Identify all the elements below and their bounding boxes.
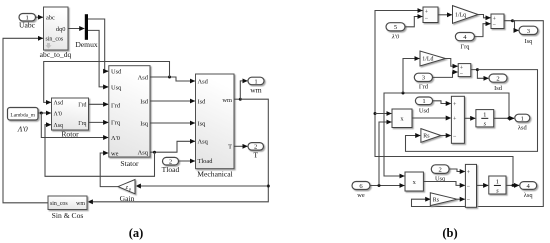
svg-text:Rs: Rs [423, 134, 430, 140]
wire demux out1 to Stator Usd [88, 19, 108, 71]
wire sum5 to integrator4 [477, 184, 489, 186]
junction Isq [511, 19, 514, 22]
wire sum4 to integrator3 [464, 117, 475, 119]
wire 1/Ld to sum3 plus [445, 59, 457, 67]
output port 1 wm [248, 77, 264, 94]
sum block S1 [423, 7, 438, 23]
wire integrator4 to lambda_sq port [506, 184, 519, 186]
block abc_to_dq [40, 7, 72, 59]
svg-text:Λ'0: Λ'0 [111, 135, 120, 142]
svg-text:Demux: Demux [75, 40, 98, 49]
gain Rs3 [421, 129, 441, 143]
svg-text:sin_cos: sin_cos [46, 37, 64, 43]
svg-text:wm: wm [222, 97, 232, 104]
svg-text:Gain: Gain [120, 194, 135, 203]
block Stator [109, 66, 150, 168]
wire lambda_sd to 1/Ld [403, 59, 419, 94]
svg-text:abc: abc [46, 15, 55, 22]
junction lambda'0 [40, 112, 43, 115]
junction wm feedback to gain [267, 185, 270, 188]
svg-text:sin_cos: sin_cos [50, 201, 68, 207]
input port 2 Usq [431, 165, 449, 183]
junction lambda_sq to x1 [374, 112, 377, 115]
input port 2 Tload [162, 157, 180, 174]
svg-text:Uabc: Uabc [19, 21, 36, 30]
wire Stator lambda_sq to Mechanical [150, 141, 195, 152]
svg-text:Isq: Isq [524, 38, 533, 45]
svg-text:1/Lq: 1/Lq [455, 13, 466, 19]
wire lambda_sq to x1 [375, 113, 391, 115]
gain 1/Lq [453, 6, 479, 24]
wire Isd feedback loop to Rs3 [406, 70, 538, 152]
block Rotor [52, 98, 89, 138]
constant Lambda_m [8, 108, 39, 134]
junction Isd [476, 68, 479, 71]
svg-text:1: 1 [483, 112, 486, 119]
svg-text:1: 1 [496, 179, 499, 186]
wire Rotor Grd to Stator [89, 103, 109, 105]
svg-text:1: 1 [521, 115, 524, 122]
svg-text:Isd: Isd [494, 85, 503, 92]
svg-text:+: + [425, 9, 429, 15]
sum block S4 [451, 96, 464, 143]
input port 1 Uabc [19, 14, 36, 30]
svg-text:Isq: Isq [140, 120, 149, 127]
wire Grd to sum3 minus [433, 72, 458, 77]
product block x2 [405, 172, 423, 191]
wire Rs4 to sum5 [457, 198, 465, 200]
block Sin & Cos [48, 196, 87, 220]
input port 1 Usd [415, 97, 432, 114]
wire we to x2 [370, 185, 404, 187]
output port 2 Isd [489, 74, 507, 92]
wire Isq feedback loop to Rs4 [412, 21, 544, 207]
junction we [378, 184, 381, 187]
wire lambda_sd feedback to Rotor [44, 62, 170, 103]
svg-text:Λsd: Λsd [198, 78, 209, 85]
input port 5 lambda'0 [386, 23, 405, 41]
gain 1/Ld [420, 51, 445, 66]
svg-text:Isq: Isq [198, 120, 207, 127]
wire lambda_sd feedback [384, 93, 509, 176]
svg-text:Λ'0: Λ'0 [17, 125, 28, 134]
output port 2 T [248, 143, 264, 160]
integrator 1/s row3 [476, 110, 494, 128]
svg-text:T: T [253, 151, 258, 160]
output port 3 Isq [519, 26, 538, 45]
sum block S5 [465, 164, 476, 207]
svg-text:we: we [111, 150, 119, 157]
wire integrator3 to lambda_sd port [494, 117, 514, 119]
svg-text:−: − [467, 184, 471, 190]
gain zp Gain [118, 180, 135, 204]
svg-text:Usd: Usd [419, 107, 430, 114]
svg-text:1/Ld: 1/Ld [422, 57, 433, 63]
wire Gain out to Stator we [100, 153, 118, 187]
input port 6 we [352, 182, 370, 200]
svg-text:wm: wm [76, 201, 85, 207]
wire sum3 out to Isd port [471, 70, 489, 79]
wire Grq to sum2 minus [474, 24, 490, 37]
svg-text:Λ'0: Λ'0 [54, 112, 62, 118]
wire dq0 to Demux [68, 28, 84, 30]
sum block S3 [458, 64, 471, 78]
svg-text:Λsq: Λsq [198, 139, 209, 146]
svg-text:(b): (b) [442, 226, 457, 240]
block Mechanical [196, 74, 235, 178]
wire lambda'0 to sum1 minus [405, 17, 422, 27]
svg-text:Λsd: Λsd [138, 74, 149, 81]
svg-text:wm: wm [250, 86, 261, 95]
svg-text:Isd: Isd [198, 99, 207, 106]
svg-text:2: 2 [496, 76, 499, 83]
demux Demux [75, 14, 98, 49]
svg-text:abc_to_dq: abc_to_dq [40, 50, 72, 59]
svg-text:λ'0: λ'0 [391, 34, 400, 41]
input port 3 Grd [414, 73, 432, 90]
output port 4 lambda_sq [520, 182, 537, 200]
wire lambda_sq feedback to Rotor [45, 125, 155, 177]
svg-text:dq0: dq0 [56, 26, 66, 33]
wire lambda'0 branch to Stator [41, 113, 108, 138]
svg-text:+: + [467, 170, 471, 176]
wire Tload to Mechanical [179, 160, 195, 162]
svg-text:Γrd: Γrd [419, 84, 429, 91]
sum block S2 [491, 14, 504, 29]
svg-text:−: − [460, 71, 464, 77]
svg-text:Γrd: Γrd [78, 103, 86, 109]
svg-text:Isd: Isd [140, 98, 149, 105]
svg-text:Γrq: Γrq [460, 43, 470, 50]
svg-text:−: − [425, 16, 429, 22]
svg-text:Λsq: Λsq [138, 150, 149, 157]
junction lambda_sq [153, 151, 156, 154]
svg-text:Γrq: Γrq [111, 120, 121, 127]
svg-text:Tload: Tload [162, 165, 180, 174]
svg-text:Usd: Usd [111, 69, 122, 76]
svg-text:Tload: Tload [198, 158, 214, 165]
wire wm to Gain [136, 185, 268, 187]
wire Stator lambda_sd to Mechanical [150, 77, 195, 81]
svg-text:Usq: Usq [111, 84, 122, 91]
wire T to port [234, 145, 247, 147]
wire Uabc to abc input [36, 16, 43, 18]
svg-text:Lambda_m: Lambda_m [10, 112, 35, 118]
wire Lambda_m to Rotor lambda'0 [38, 112, 51, 114]
svg-text:2: 2 [438, 166, 441, 173]
wire x1 to sum4 [412, 117, 451, 119]
wire sum2 out to Isq port [504, 21, 518, 31]
svg-text:1: 1 [254, 78, 257, 85]
wire demux out2 to Stator Usq [88, 30, 108, 87]
output port 1 lambda_sd [515, 114, 530, 131]
wire Usq to sum5 [449, 169, 465, 172]
wire Rotor Grq to Stator [89, 121, 109, 123]
junction wm [239, 98, 242, 101]
svg-text:λsd: λsd [518, 125, 528, 132]
svg-text:(a): (a) [129, 226, 144, 240]
svg-text:Λsq: Λsq [54, 123, 64, 129]
wire wm out [234, 98, 240, 100]
svg-text:T: T [228, 144, 232, 151]
svg-text:Rs: Rs [433, 197, 440, 203]
integrator 1/s row4 [489, 176, 506, 194]
wire 1/Lq to sum2 plus [478, 15, 490, 18]
svg-text:Γrd: Γrd [111, 102, 121, 109]
wire wm feedback down right side [88, 99, 268, 202]
svg-text:Stator: Stator [120, 159, 139, 168]
wire x2 to sum5 [423, 182, 464, 186]
wire we to x1 [379, 122, 391, 186]
svg-text:Λsd: Λsd [54, 101, 64, 107]
wire Stator Isd to Mechanical [150, 100, 195, 102]
svg-text:Rotor: Rotor [61, 129, 79, 138]
svg-text:1: 1 [422, 98, 425, 105]
junction lambda_sd to 1/Ld [402, 92, 405, 95]
input port 4 Grq [455, 33, 474, 51]
svg-text:Mechanical: Mechanical [197, 169, 232, 178]
wire sin_cos feedback to abc_to_dq [3, 38, 48, 203]
svg-text:λsq: λsq [524, 192, 534, 199]
svg-text:−: − [467, 198, 471, 204]
wire Usd to sum4 [433, 101, 451, 104]
wire Rs3 to sum4 [441, 135, 451, 137]
junction lambda_sd out [508, 117, 511, 120]
product block x1 [392, 109, 412, 128]
junction lambda_sq out [512, 184, 515, 187]
wire wm to port [240, 81, 247, 99]
junction lambda_sd [168, 76, 171, 79]
svg-text:Sin & Cos: Sin & Cos [52, 211, 84, 220]
gain Rs4 [430, 193, 457, 206]
wire sum1 to gain 1/Lq [438, 14, 452, 16]
wire lambda_sq feedback up left [375, 11, 513, 186]
svg-text:Γrq: Γrq [78, 121, 86, 127]
wire Stator Isq to Mechanical [150, 122, 195, 124]
svg-text:we: we [357, 192, 365, 199]
